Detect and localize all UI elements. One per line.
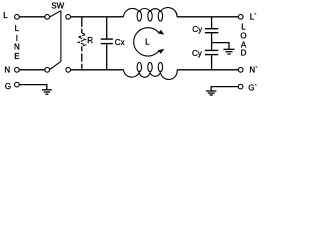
terminal L' xyxy=(238,14,243,19)
svg-text:L: L xyxy=(3,11,8,20)
capacitor Cy1 top lead xyxy=(211,17,213,28)
svg-text:Cy: Cy xyxy=(192,25,202,34)
terminal N' xyxy=(238,67,243,72)
resistor R bottom lead (dashed) xyxy=(81,46,83,70)
svg-text:L`: L` xyxy=(250,12,257,21)
capacitor Cy2 plates xyxy=(205,49,218,51)
capacitor Cx bottom lead xyxy=(106,44,108,70)
terminal G xyxy=(15,82,20,87)
switch bottom pole right contact xyxy=(66,67,71,72)
switch SW top pole blade xyxy=(50,11,61,17)
switch bottom pole blade xyxy=(50,61,61,69)
svg-text:O: O xyxy=(240,31,246,40)
capacitor Cx top lead xyxy=(106,17,108,39)
svg-text:I: I xyxy=(16,34,18,43)
ground (G') xyxy=(206,90,216,92)
svg-text:N: N xyxy=(14,43,20,52)
svg-text:D: D xyxy=(241,49,247,58)
wire Cy1 to Cy2 xyxy=(211,33,213,50)
wire Cy junction to ground xyxy=(212,43,229,49)
inductance arrow circle xyxy=(134,28,160,56)
wire top rail switch to choke xyxy=(70,16,123,18)
wire N to switch xyxy=(19,69,45,71)
switch SW top pole right contact xyxy=(66,14,71,19)
resistor R zigzag xyxy=(78,33,85,46)
svg-text:N`: N` xyxy=(249,66,258,75)
svg-text:N: N xyxy=(4,66,10,75)
capacitor Cy1 plates xyxy=(205,28,218,30)
switch mechanical link xyxy=(60,11,62,62)
ground (G) xyxy=(42,89,52,91)
svg-text:L: L xyxy=(15,24,20,33)
choke bottom winding xyxy=(124,70,178,80)
capacitor Cy2 bottom lead xyxy=(211,55,213,70)
choke top winding xyxy=(123,8,177,17)
svg-text:R: R xyxy=(87,36,93,45)
resistor R top lead (dashed) xyxy=(81,17,83,33)
terminal L xyxy=(15,14,20,19)
svg-text:Cx: Cx xyxy=(115,38,125,47)
wire L to switch xyxy=(19,16,45,18)
wire bottom rail switch to choke xyxy=(70,69,123,71)
svg-text:L: L xyxy=(145,38,150,47)
svg-text:Cy: Cy xyxy=(192,49,202,58)
switch SW top pole left contact xyxy=(45,14,50,19)
wire top rail choke to L' xyxy=(177,16,238,18)
svg-text:G`: G` xyxy=(248,84,257,93)
ground (Cy midpoint) xyxy=(223,48,234,50)
capacitor Cx plates xyxy=(101,38,113,40)
svg-text:SW: SW xyxy=(51,2,64,11)
wire bottom rail choke to N' xyxy=(177,69,238,71)
svg-text:L: L xyxy=(241,23,246,32)
terminal G' xyxy=(238,84,243,89)
svg-text:E: E xyxy=(14,52,19,61)
switch bottom pole left contact xyxy=(45,67,50,72)
wire G to ground xyxy=(19,85,47,90)
wire G' to ground xyxy=(211,87,238,91)
svg-text:G: G xyxy=(5,82,11,91)
terminal N xyxy=(15,67,20,72)
